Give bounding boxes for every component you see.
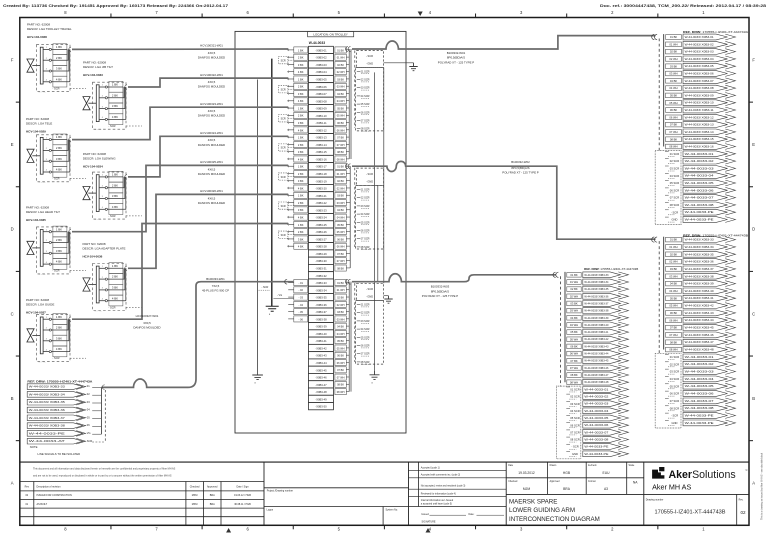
fan-in wire row 3 (288, 63, 294, 65)
screen bracket group 7 (278, 231, 288, 238)
svg-text:W-44-0033-PE: W-44-0033-PE (584, 445, 608, 449)
svg-text:1 BK: 1 BK (298, 194, 304, 198)
terminal -X0B3-38 (309, 315, 334, 322)
svg-text:W-44-0033/ X0B3-16: W-44-0033/ X0B3-16 (685, 145, 715, 149)
svg-text:W-44-0033-06: W-44-0033-06 (685, 392, 715, 396)
terminal -X0B3-09 (309, 104, 334, 111)
svg-text:05 BK: 05 BK (670, 296, 678, 300)
svg-text:-X0B3-09: -X0B3-09 (315, 107, 327, 111)
fan-in wire row 16 (288, 158, 294, 160)
svg-text:05 SCR: 05 SCR (670, 384, 679, 388)
wire label 3 BK row 11 (294, 120, 308, 126)
terminal -X0B3-33 (309, 279, 334, 286)
svg-text:08 WH: 08 WH (570, 380, 578, 384)
svg-text:A3: A3 (604, 487, 608, 491)
svg-text:BRA: BRA (210, 503, 215, 506)
svg-text:4 BK: 4 BK (112, 296, 118, 300)
flag A row 20 04 SCR (665, 173, 736, 179)
svg-text:GND: GND (672, 421, 678, 425)
valve HCV-104-0036 wires to cable merge (107, 268, 125, 300)
svg-text:05 WH: 05 WH (337, 114, 345, 118)
fan-in wire row 4 (288, 71, 294, 73)
flag C row 10 05 WH (567, 336, 629, 342)
svg-text:HCV-104-0037: HCV-104-0037 (26, 311, 46, 315)
terminal -X0B3-37 (309, 308, 334, 315)
screen wire to ground G5 (374, 72, 376, 371)
svg-text:04 BK: 04 BK (337, 325, 344, 329)
svg-text:-X0B3-22: -X0B3-22 (315, 201, 327, 205)
svg-text:-X0B3-35: -X0B3-35 (315, 296, 327, 300)
svg-text:03 SCR: 03 SCR (361, 86, 370, 90)
svg-text:03 BK: 03 BK (337, 77, 344, 81)
svg-text:3 BK: 3 BK (298, 150, 304, 154)
wire label 3 BK row 27 (294, 236, 308, 242)
svg-text:W-44-0033-04: W-44-0033-04 (685, 174, 715, 178)
core label 06 BK row 11 (335, 120, 346, 126)
ground G2 (384, 296, 392, 304)
terminal -X0B3-07 (309, 90, 334, 97)
svg-text:PART NO: 62008: PART NO: 62008 (83, 242, 106, 246)
svg-text:-X0B3-18: -X0B3-18 (315, 172, 327, 176)
valve HCV-104-0028 wires to cable merge (51, 49, 69, 81)
core label 04 BK row 7 (335, 91, 346, 97)
svg-text:Date: Date (508, 464, 514, 467)
svg-text:01 BK: 01 BK (570, 273, 578, 277)
valve HCV-104-0028 terminals 1-4 (43, 47, 51, 83)
svg-text:2 BK: 2 BK (298, 201, 304, 205)
svg-text:-X0B3-10: -X0B3-10 (315, 114, 327, 118)
flag C row 1 01 BK (567, 272, 629, 278)
location box ON TROLLEY (235, 31, 406, 433)
wire label 1 BK row 1 (294, 47, 308, 53)
ground G4 (252, 375, 263, 380)
svg-text:DESCR: LGA TELE: DESCR: LGA TELE (26, 122, 52, 126)
cable B100333-W01 run (101, 282, 293, 388)
svg-text:HCV100325-W01: HCV100325-W01 (200, 160, 223, 164)
svg-text:05 WH: 05 WH (570, 337, 578, 341)
svg-text:-X0B3-31: -X0B3-31 (315, 267, 327, 271)
svg-text:04 SCR: 04 SCR (361, 212, 370, 216)
terminal -X0B3-32 (309, 272, 334, 279)
svg-text:02 WH: 02 WH (669, 260, 677, 264)
svg-text:3 BK: 3 BK (56, 157, 62, 161)
svg-text:2 BK: 2 BK (112, 183, 118, 187)
svg-text:4 BK: 4 BK (298, 128, 304, 132)
flag B row 5 03 BK (666, 266, 736, 272)
core label 07 WH row 46 (335, 374, 346, 380)
terminal -X0B3-29 (309, 250, 334, 257)
svg-text:-X0B3-27: -X0B3-27 (315, 237, 327, 241)
svg-text:03 SCR: 03 SCR (670, 167, 679, 171)
wire label 2 BK row 10 (294, 112, 308, 118)
svg-text:Drawing number: Drawing number (646, 499, 664, 502)
svg-text:-X0B3-17: -X0B3-17 (315, 165, 327, 169)
flag A row 23 07 SCR (665, 195, 736, 201)
svg-text:Issued: Issued (422, 513, 430, 516)
svg-text:W-44-0033-04: W-44-0033-04 (685, 377, 715, 381)
svg-text:SCR: SCR (281, 234, 286, 237)
svg-text:08 BK: 08 BK (337, 150, 344, 154)
svg-text:4X0,5: 4X0,5 (208, 167, 216, 171)
svg-text:DANFOS MOULDED: DANFOS MOULDED (198, 56, 225, 60)
core label 06 WH row 28 (335, 243, 346, 249)
svg-text:1 BK: 1 BK (112, 173, 118, 177)
svg-text:1 BK: 1 BK (56, 315, 62, 319)
flag B row 12 06 WH (666, 317, 736, 323)
flag B row 15 08 BK (666, 339, 736, 345)
svg-text:W-44-0033/ X0B3-46: W-44-0033/ X0B3-46 (584, 366, 609, 370)
cable HCV100324-W01 run (128, 136, 288, 177)
flag D row 8 - SCR (27, 438, 105, 444)
svg-text:08 BK: 08 BK (337, 266, 344, 270)
svg-text:W-44-0033/ X0B3-14: W-44-0033/ X0B3-14 (685, 130, 715, 134)
svg-text:07 BK: 07 BK (570, 359, 578, 363)
svg-text:4 BK: 4 BK (112, 205, 118, 209)
svg-text:3 BK: 3 BK (298, 179, 304, 183)
terminal -X0B3-13 (309, 134, 334, 141)
flag A row 12 06 WH (666, 114, 736, 120)
svg-text:- 06: - 06 (298, 317, 303, 321)
screen terminals 01-08 SCR cable B (356, 186, 384, 250)
svg-text:07 BK: 07 BK (337, 136, 344, 140)
svg-text:4 BK: 4 BK (112, 115, 118, 119)
flag C row 4 02 WH (567, 293, 629, 299)
svg-text:- SCR: - SCR (366, 172, 373, 176)
svg-text:HCV-104-0034: HCV-104-0034 (83, 165, 103, 169)
svg-text:05 SCR: 05 SCR (361, 335, 370, 339)
fan-in wire row 5 (288, 78, 294, 80)
svg-text:Project /Drawing number: Project /Drawing number (267, 489, 294, 492)
flag B row 1 01 BK (666, 237, 736, 243)
wire label 4 BK row 16 (294, 156, 308, 162)
junction at HCV100322-W01 (125, 85, 127, 89)
svg-text:- SCR: - SCR (52, 356, 59, 360)
flag B row 6 03 WH (666, 273, 736, 279)
svg-text:07 WH: 07 WH (669, 130, 677, 134)
svg-text:LINE SIGNALS TO BE ISOLATED: LINE SIGNALS TO BE ISOLATED (38, 452, 81, 456)
svg-text:DANFOS MOULDED: DANFOS MOULDED (133, 326, 160, 330)
wire label 1 BK row 17 (294, 163, 308, 169)
junction marks cable 3 (285, 279, 287, 284)
screen bracket group 4 (278, 144, 288, 151)
svg-text:01 SCR: 01 SCR (361, 69, 370, 73)
svg-text:4 BK: 4 BK (56, 260, 62, 264)
svg-text:1 BK: 1 BK (56, 45, 62, 49)
svg-text:- SCR: - SCR (671, 414, 678, 418)
core label 07 WH row 14 (335, 141, 346, 147)
flag B row 14 07 WH (666, 332, 736, 338)
terminal -X0B3-43 (309, 352, 334, 359)
wire label 4 BK row 28 (294, 243, 308, 249)
svg-text:W-44-0033/ X0B3-42: W-44-0033/ X0B3-42 (584, 337, 609, 341)
fan-in wire row 36 (288, 303, 294, 305)
fold mark top (418, 12, 423, 17)
svg-text:W-44-0033/ X0B3-38: W-44-0033/ X0B3-38 (685, 274, 715, 278)
core label 05 BK row 25 (335, 221, 346, 227)
svg-text:BRA: BRA (563, 487, 571, 491)
svg-text:HCV-104-0036: HCV-104-0036 (83, 254, 103, 258)
fan-in wire row 15 (288, 151, 294, 153)
svg-text:W-44-0033-06: W-44-0033-06 (584, 423, 609, 427)
flag A row 16 08 WH (666, 144, 736, 150)
svg-text:06 SCR: 06 SCR (670, 188, 679, 192)
svg-text:06 SCR: 06 SCR (361, 344, 370, 348)
svg-text:05 BK: 05 BK (337, 106, 344, 110)
junction at HCV100321-W01 (69, 47, 71, 51)
cable HCV100326-W01 run (128, 194, 288, 268)
terminal -X0B3-46 (309, 373, 334, 380)
junction marks cable to stack B (346, 164, 351, 169)
core label 06 WH row 12 (335, 127, 346, 133)
AkerSolutions logo (652, 467, 747, 492)
svg-text:-X0B3-05: -X0B3-05 (315, 77, 327, 81)
solenoid valve HCV-104-0034 symbol (83, 187, 90, 200)
svg-text:-X0B3-40: -X0B3-40 (315, 332, 327, 336)
svg-text:- SCR: - SCR (108, 305, 115, 309)
svg-text:07 WH: 07 WH (570, 366, 578, 370)
svg-text:DANFOS MOULDED: DANFOS MOULDED (198, 114, 225, 118)
svg-text:02 WH: 02 WH (337, 303, 345, 307)
wire label 4 BK row 12 (294, 127, 308, 133)
svg-text:3 BK: 3 BK (56, 336, 62, 340)
flag C row 12 06 WH (567, 351, 629, 357)
fan-in wire row 13 (288, 136, 294, 138)
svg-text:- 02: - 02 (85, 392, 90, 396)
flag A row 4 02 WH (666, 56, 736, 62)
svg-text:-X0B3-42: -X0B3-42 (315, 346, 327, 350)
svg-text:B100333-W01: B100333-W01 (206, 277, 225, 281)
svg-text:HCV100321-W01: HCV100321-W01 (200, 44, 223, 48)
svg-text:- 05: - 05 (298, 310, 303, 314)
wire label 4 BK row 4 (294, 69, 308, 75)
flag C row 3 02 BK (567, 286, 629, 292)
svg-text:LOCATION: ON TROLLEY: LOCATION: ON TROLLEY (313, 33, 347, 37)
svg-text:W-44-0033-03: W-44-0033-03 (685, 370, 715, 374)
valve HCV-104-0033 wire labels 1-4 BK (109, 81, 123, 124)
svg-text:SIGNATURE: SIGNATURE (422, 520, 436, 523)
svg-text:W-44-0033/ X0B3-35: W-44-0033/ X0B3-35 (685, 252, 715, 256)
svg-text:W-44-0033/ X0B3-34: W-44-0033/ X0B3-34 (685, 245, 715, 249)
cable entry marks stack C (553, 272, 558, 277)
svg-text:2 BK: 2 BK (298, 143, 304, 147)
svg-text:W-44-0033/ X0B3-40: W-44-0033/ X0B3-40 (584, 323, 609, 327)
flag A row 6 03 WH (666, 71, 736, 77)
flag B row 23 07 SCR (665, 398, 736, 404)
svg-text:W-44-0033/ X0B3-13: W-44-0033/ X0B3-13 (685, 123, 715, 127)
solenoid valve HCV-104-0029 symbol (27, 149, 34, 162)
svg-text:-X0B3-16: -X0B3-16 (315, 157, 327, 161)
svg-text:05 BK: 05 BK (337, 223, 344, 227)
svg-text:-X0B3-12: -X0B3-12 (315, 128, 327, 132)
svg-text:03 WH: 03 WH (570, 309, 578, 313)
svg-text:04 WH: 04 WH (337, 99, 345, 103)
terminal -X0B3-02 (309, 54, 334, 61)
svg-text:W-44-0033/ X0B3-46: W-44-0033/ X0B3-46 (685, 333, 715, 337)
svg-text:4 BK: 4 BK (298, 245, 304, 249)
svg-text:-X0B3-28: -X0B3-28 (315, 245, 327, 249)
core label 07 BK row 45 (335, 367, 346, 373)
core label 01 BK row 33 (335, 280, 346, 286)
solenoid valve HCV-104-0033 symbol (83, 97, 90, 110)
screen-ground box cable 2 (357, 283, 384, 300)
svg-text:4 BK: 4 BK (298, 99, 304, 103)
terminal -X0B3-28 (309, 243, 334, 250)
svg-text:Logos: Logos (267, 508, 274, 511)
svg-text:W-44-0033-08: W-44-0033-08 (584, 437, 609, 441)
svg-text:SCR: SCR (281, 89, 286, 92)
svg-text:06 BK: 06 BK (337, 121, 344, 125)
svg-text:03 WH: 03 WH (337, 85, 345, 89)
svg-text:05 WH: 05 WH (669, 304, 677, 308)
svg-text:4X0,5: 4X0,5 (208, 109, 216, 113)
svg-text:04 BK: 04 BK (570, 316, 578, 320)
svg-text:01 WH: 01 WH (669, 245, 677, 249)
svg-text:W-44-0033/ X0B3-04: W-44-0033/ X0B3-04 (685, 57, 715, 61)
svg-text:HCV100326-W01: HCV100326-W01 (200, 189, 223, 193)
screen terminals 01-08 SCR cable 2 (356, 301, 384, 365)
svg-text:01 WH: 01 WH (570, 280, 578, 284)
svg-text:Internal information as I /iss: Internal information as I /issued (421, 499, 454, 502)
svg-text:04 SCR: 04 SCR (361, 327, 370, 331)
svg-text:1 BK: 1 BK (298, 106, 304, 110)
wire label 2 BK row 18 (294, 170, 308, 176)
svg-text:03 BK: 03 BK (337, 194, 344, 198)
svg-text:07 WH: 07 WH (337, 143, 345, 147)
svg-text:08 WH: 08 WH (669, 348, 677, 352)
svg-text:03 BK: 03 BK (337, 310, 344, 314)
svg-text:W-44-0033-08: W-44-0033-08 (685, 406, 715, 410)
svg-text:1 BK: 1 BK (112, 264, 118, 268)
wire label 2 BK row 2 (294, 54, 308, 60)
flag C row 11 06 BK (567, 344, 629, 350)
terminal -X0B3-25 (309, 221, 334, 228)
svg-text:- SCR: - SCR (366, 287, 373, 291)
svg-text:- 01: - 01 (85, 384, 90, 388)
valve HCV-104-0035 wire labels 1-4 BK (53, 226, 67, 269)
flag C row 5 03 BK (567, 301, 629, 307)
junction at HCV100325-W01 (69, 230, 71, 234)
svg-text:1 BK: 1 BK (298, 165, 304, 169)
svg-text:EUU: EUU (603, 471, 611, 475)
svg-text:-X0B3-01: -X0B3-01 (315, 48, 327, 52)
svg-text:W-44-0033/ X0B3-44: W-44-0033/ X0B3-44 (685, 318, 715, 322)
svg-text:01 BK: 01 BK (337, 165, 344, 169)
svg-text:03 SCR: 03 SCR (361, 319, 370, 323)
flag C row 15 08 BK (567, 372, 629, 378)
svg-text:-X0B3-46: -X0B3-46 (315, 376, 327, 380)
valve HCV-104-0036 terminal bar (96, 266, 99, 303)
terminal -X0B3-19 (309, 177, 334, 184)
flag A row 17 01 SCR (665, 151, 736, 157)
core label 03 WH row 38 (335, 316, 346, 322)
svg-text:30.08.11 / HGB: 30.08.11 / HGB (234, 503, 251, 506)
svg-text:Approved: Approved (550, 480, 561, 483)
svg-text:08 BK: 08 BK (337, 383, 344, 387)
terminal -X0B3-44 (309, 359, 334, 366)
svg-text:A: A (11, 481, 14, 486)
terminal -X0B3-34 (309, 286, 334, 293)
svg-text:-X0B3-43: -X0B3-43 (315, 354, 327, 358)
svg-text:W-44-0033/ X0B3-01: W-44-0033/ X0B3-01 (685, 35, 715, 39)
core label 08 BK row 47 (335, 381, 346, 387)
fan-in wire row 6 (288, 85, 294, 87)
terminal -X0B3-03 (309, 61, 334, 68)
terminal -X0B3-26 (309, 228, 334, 235)
svg-text:W-44-0033/ X0B3-48: W-44-0033/ X0B3-48 (685, 348, 715, 352)
svg-text:- 02: - 02 (298, 288, 303, 292)
valve HCV-104-0035 wires to cable merge (51, 232, 69, 264)
svg-text:3 BK: 3 BK (56, 67, 62, 71)
svg-text:W-44-0033/ X0B3-33: W-44-0033/ X0B3-33 (584, 273, 609, 277)
fan-in wire row 23 (288, 209, 294, 211)
svg-text:04 BK: 04 BK (337, 208, 344, 212)
fan-in wire row 38 (288, 318, 294, 320)
valve HCV-104-0037 terminals 1-4 (43, 317, 51, 353)
core label 05 WH row 10 (335, 112, 346, 118)
terminal -X0B3-12 (309, 126, 334, 133)
svg-text:and are not to be used, reprod: and are not to be used, reproduced or di… (33, 475, 172, 478)
flag B row 4 02 WH (666, 259, 736, 265)
svg-text:4X0,5: 4X0,5 (208, 51, 216, 55)
core label 04 WH row 8 (335, 98, 346, 104)
svg-text:Date:: Date: (469, 513, 475, 516)
svg-text:1 BK: 1 BK (298, 77, 304, 81)
cable HCV100323-W01 run (72, 107, 288, 139)
flag A row 24 08 SCR (665, 202, 736, 208)
svg-text:DESCR: LGA GUIDE: DESCR: LGA GUIDE (26, 303, 54, 307)
terminal -X0B3-22 (309, 199, 334, 206)
flag B row 21 05 SCR (665, 383, 736, 389)
svg-text:08 BK: 08 BK (570, 373, 578, 377)
fan-in wire row 28 (288, 245, 294, 247)
svg-text:PART NO: 62008: PART NO: 62008 (27, 23, 50, 27)
location box title (308, 31, 354, 36)
valve HCV-104-0033 screen dashed box (93, 82, 127, 129)
junction marks cable 1 (346, 47, 351, 52)
svg-text:01 SCR: 01 SCR (670, 152, 679, 156)
flag C row 25 - SCR (566, 444, 628, 450)
svg-text:W-44-0033/ X0B3-37: W-44-0033/ X0B3-37 (584, 301, 609, 305)
svg-text:2 BK: 2 BK (298, 85, 304, 89)
svg-text:W-44-0033-01: W-44-0033-01 (685, 152, 715, 156)
fan-in wire row 19 (288, 180, 294, 182)
core label 08 BK row 31 (335, 265, 346, 271)
core bus stack C (564, 272, 566, 382)
svg-text:4X0,5: 4X0,5 (208, 196, 216, 200)
svg-text:W-44-0033/ X0B3-38: W-44-0033/ X0B3-38 (29, 425, 66, 428)
flag C row 23 07 SCR (566, 429, 628, 435)
svg-text:Reviewed for information (code: Reviewed for information (code 4) (421, 493, 456, 496)
svg-text:POLYRAD XT - 125 TYPE P: POLYRAD XT - 125 TYPE P (502, 170, 539, 174)
flag D row 7 - VG (27, 431, 101, 437)
svg-text:4X0,5: 4X0,5 (208, 80, 216, 84)
svg-text:F: F (11, 57, 14, 62)
terminal -X0B3-27 (309, 235, 334, 242)
core label 01 WH row 34 (335, 287, 346, 293)
svg-text:Checked: Checked (508, 481, 518, 483)
svg-text:03 WH: 03 WH (337, 317, 345, 321)
svg-text:- SCR: - SCR (671, 210, 678, 214)
svg-text:01 SCR: 01 SCR (361, 303, 370, 307)
svg-text:4 BK: 4 BK (56, 347, 62, 351)
svg-text:PART NO: 62008: PART NO: 62008 (83, 152, 106, 156)
solenoid valve HCV-104-0035 symbol (27, 241, 34, 254)
svg-text:03 SCR: 03 SCR (361, 204, 370, 208)
svg-text:W-44-0033/ X0B3-41: W-44-0033/ X0B3-41 (685, 296, 715, 300)
svg-text:02: 02 (740, 510, 746, 515)
screen bracket group 3 (278, 115, 288, 122)
svg-text:03 SCR: 03 SCR (670, 370, 679, 374)
